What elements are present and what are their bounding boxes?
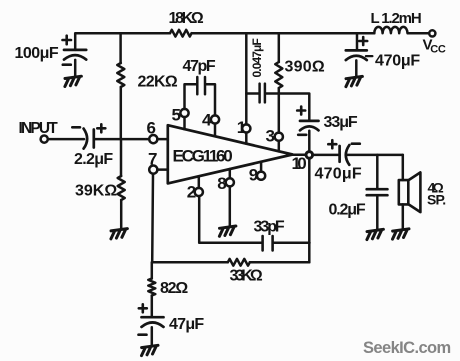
terminal INPUT [41, 136, 48, 143]
node J junction dot (82 ohm tap) [148, 259, 155, 266]
capacitor C6 minus sign [352, 142, 360, 145]
svg-text:33pF: 33pF [254, 219, 285, 236]
wire pin 8 to triangle bottom edge [229, 169, 232, 178]
pin 5 terminal [180, 109, 188, 117]
capacitor C6 470uF output coupling [340, 145, 350, 165]
wire input node to 39K [120, 139, 123, 176]
capacitor C10 minus sign [139, 333, 147, 336]
node F junction dot (0.047 left) [243, 90, 250, 97]
resistor R2 22K ohm [117, 63, 124, 87]
pin 8 terminal [226, 178, 234, 186]
wire pin 2 to triangle bottom edge [198, 176, 201, 188]
pin 7 terminal [149, 166, 157, 174]
svg-text:470μF: 470μF [315, 166, 362, 183]
resistor R1 18K ohm [170, 30, 192, 37]
speaker LS1 cone [409, 172, 421, 212]
svg-text:8: 8 [217, 174, 226, 193]
node H junction dot (0.2uF tap) [374, 151, 381, 158]
wire junction G to 33uF branch [279, 94, 310, 121]
svg-text:33KΩ: 33KΩ [230, 268, 263, 285]
node G junction dot (390 / 0.047 / 33uF) [275, 90, 282, 97]
svg-text:0.047μF: 0.047μF [250, 39, 264, 78]
svg-text:2.2μF: 2.2μF [74, 151, 113, 168]
node A junction dot (rail / 100uF / 22K) [117, 30, 124, 37]
svg-text:9: 9 [249, 166, 258, 185]
svg-text:39KΩ: 39KΩ [75, 183, 117, 200]
svg-text:INPUT: INPUT [19, 120, 59, 137]
capacitor C3 47pF with bracket wires [185, 77, 216, 116]
capacitor C5 33uF [300, 121, 319, 130]
svg-text:470μF: 470μF [375, 53, 420, 70]
pin 3 terminal [275, 133, 283, 141]
wire node 10 to C6 [313, 154, 340, 157]
capacitor C4 0.047uF [246, 84, 278, 103]
svg-text:22KΩ: 22KΩ [138, 74, 178, 91]
wire pin 4 to triangle top edge [214, 124, 217, 137]
capacitor C10 47uF [142, 317, 164, 327]
wire pin 8 to ground [229, 186, 232, 226]
node B junction dot (rail / C 0.047 line) [243, 30, 250, 37]
capacitor C1 minus sign [63, 63, 71, 66]
inductor L1 1.2mH [374, 27, 407, 33]
wire 39K to ground [120, 200, 123, 229]
svg-text:ECG1160: ECG1160 [173, 147, 233, 166]
capacitor C1 100uF plus sign [63, 36, 72, 45]
pin 6 terminal [149, 135, 157, 143]
wire down to speaker [402, 155, 405, 180]
svg-text:47pF: 47pF [183, 58, 216, 75]
svg-text:CC: CC [430, 44, 446, 56]
svg-text:3: 3 [266, 127, 275, 146]
capacitor C2 2.2uF [84, 129, 94, 149]
pin 2 terminal [195, 188, 203, 196]
wire pin 5 to triangle top edge [183, 117, 186, 129]
wire pin 7 down to 82ohm node [151, 174, 154, 263]
ground G3 (pin 8) [219, 226, 236, 236]
wire rail to 0.047 junction (pin 1 line) [245, 33, 248, 124]
wire top rail segment B (18K to 0.047 branch) [192, 32, 247, 35]
wire pin 9 stub to triangle bottom edge [260, 162, 263, 172]
wire C8 to ground [355, 60, 358, 76]
ground G5 (speaker) [393, 229, 410, 239]
wire output node down right side [308, 158, 311, 262]
node 10 output terminal [306, 152, 313, 159]
capacitor C8 470uF supply [346, 50, 367, 60]
capacitor C10 47uF plus sign [139, 304, 147, 312]
wire 0.2uF to ground [376, 196, 379, 230]
capacitor C2 2.2uF minus sign [72, 126, 80, 129]
capacitor C9 33pF [263, 236, 273, 250]
wire 82 ohm to C10 [151, 296, 154, 317]
wire rail to C8 [356, 33, 359, 50]
ground G4 (below 0.2uF) [367, 229, 384, 239]
resistor R6 82 ohm [148, 279, 155, 296]
wire top rail segment C (to 390 branch) [246, 32, 278, 35]
wire 100uF to ground [74, 60, 77, 77]
op-amp U1 ECG1160 triangle [168, 125, 293, 183]
capacitor C7 0.2uF [367, 189, 388, 195]
resistor R4 390 ohm [275, 62, 282, 88]
wire 390 to junction and pin 3 [278, 88, 281, 133]
ground G6 (below C8) [346, 76, 363, 86]
capacitor C6 470uF plus sign [328, 140, 336, 148]
wire 22K to input node [120, 87, 123, 139]
capacitor C5 33uF plus sign [297, 107, 305, 115]
svg-text:18KΩ: 18KΩ [169, 10, 204, 27]
svg-text:390Ω: 390Ω [285, 59, 325, 76]
wire pin 1 to triangle top edge [245, 133, 248, 144]
capacitor C8 minus sign [366, 55, 373, 57]
svg-text:33μF: 33μF [324, 114, 358, 131]
capacitor C2 plus sign [97, 124, 105, 132]
ground G2 (below 39K) [111, 229, 128, 239]
node I junction dot (33pF right) [306, 239, 313, 246]
wire speaker to ground [402, 204, 405, 229]
svg-text:10: 10 [292, 154, 307, 173]
wire top rail segment D (to L/470uF junction) [279, 32, 375, 35]
ground G7 (below 47uF) [142, 345, 159, 355]
wire node J to 82 ohm [151, 262, 154, 278]
wire top supply rail segment A (100uF stub to 18K) [75, 33, 170, 50]
wire triangle apex to output node [293, 153, 307, 156]
node D junction dot (rail / 470uF / L) [354, 30, 361, 37]
capacitor C5 minus sign [298, 134, 306, 137]
resistor R5 33K ohm [228, 259, 250, 266]
wire bottom rail right segment [250, 261, 309, 264]
wire pin 6 to triangle [157, 138, 168, 141]
wire bottom rail left segment [152, 261, 228, 264]
ground G1 (below 100uF) [65, 76, 82, 86]
svg-text:5: 5 [172, 106, 181, 125]
svg-text:82Ω: 82Ω [160, 280, 188, 297]
wire pin 7 to triangle [157, 168, 168, 171]
svg-text:4: 4 [202, 111, 212, 130]
wire C10 to ground [151, 327, 154, 345]
wire 33uF to output node [308, 131, 311, 152]
svg-text:47μF: 47μF [169, 316, 204, 333]
wire C6 to speaker junction [346, 154, 403, 157]
svg-text:100μF: 100μF [15, 45, 59, 62]
svg-text:1: 1 [237, 118, 246, 137]
svg-text:0.2μF: 0.2μF [329, 202, 366, 219]
wire input terminal to C2 [48, 138, 84, 141]
wire C2 to input node and pin 6 [94, 138, 150, 141]
svg-text:6: 6 [147, 119, 156, 138]
svg-text:L 1.2mH: L 1.2mH [371, 10, 422, 27]
svg-text:2: 2 [187, 183, 196, 202]
svg-text:SP.: SP. [427, 192, 446, 208]
svg-text:SeekIC.com: SeekIC.com [363, 339, 451, 357]
wire 33pF right segment [273, 242, 310, 245]
pin 1 terminal [242, 124, 250, 132]
resistor R3 39K ohm [118, 176, 125, 200]
terminal VCC [429, 30, 435, 36]
speaker LS1 body [399, 180, 409, 204]
svg-text:7: 7 [148, 150, 157, 169]
capacitor C8 470uF plus sign [359, 37, 367, 45]
node E junction dot (input node) [118, 136, 125, 143]
pin 9 terminal [257, 172, 265, 180]
wire junction H down to 0.2uF [376, 155, 379, 189]
wire pin 3 to triangle top edge [278, 141, 281, 152]
wire inductor to Vcc terminal [408, 32, 429, 35]
pin 4 terminal [211, 115, 219, 123]
wire rail to 390 resistor [278, 33, 281, 62]
wire 33pF left segment to pin 2 [199, 196, 262, 243]
wire rail to 22K [119, 33, 122, 63]
node C junction dot (rail / 390 line) [275, 30, 282, 37]
capacitor C1 100uF [64, 50, 86, 60]
